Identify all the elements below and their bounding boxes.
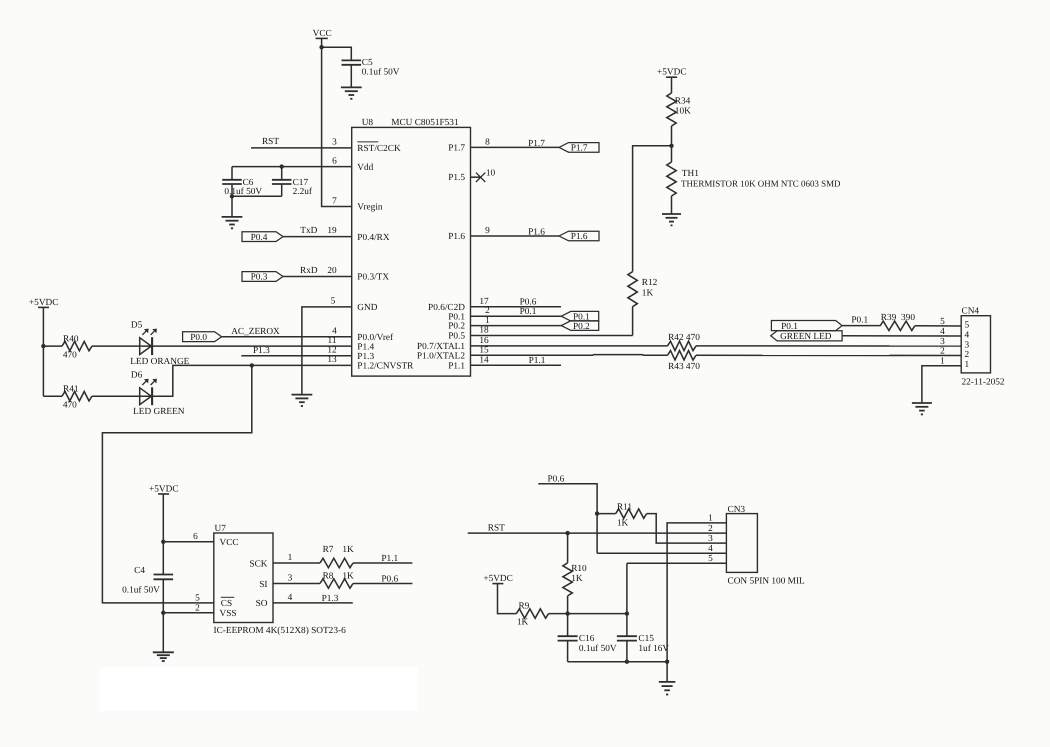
wire C4 to ground xyxy=(162,579,164,652)
resistor R10 xyxy=(567,533,569,563)
wire VCC vertical to Vregin xyxy=(322,38,352,206)
svg-text:1: 1 xyxy=(485,316,490,326)
svg-text:P1.6: P1.6 xyxy=(448,232,465,242)
svg-text:+5VDC: +5VDC xyxy=(657,68,687,78)
LED D6 xyxy=(140,388,152,405)
wire R43 to CN4 pin 2 xyxy=(696,354,961,356)
svg-text:SO: SO xyxy=(256,599,268,609)
wire CN3 pin 4 xyxy=(597,552,726,554)
wire P1.3 stub / net label P1.3 xyxy=(241,355,351,357)
svg-text:15: 15 xyxy=(479,345,489,355)
svg-text:10K: 10K xyxy=(675,107,691,117)
svg-text:11: 11 xyxy=(328,336,337,346)
resistor R9 xyxy=(516,609,548,618)
svg-text:2: 2 xyxy=(708,524,713,534)
ground below C4 xyxy=(153,651,174,653)
svg-text:R34: R34 xyxy=(675,97,691,107)
svg-text:TxD: TxD xyxy=(300,226,317,236)
wire VCC to C5 xyxy=(322,47,352,60)
wire CN4 pin 1 to ground xyxy=(922,366,961,403)
wire R7 to P1.1 stub / net label P1.1 xyxy=(353,562,412,564)
net flag P0.0 xyxy=(183,332,222,342)
svg-text:RST: RST xyxy=(488,524,505,534)
wire pin 17 stub / net label P0.6 xyxy=(471,306,562,308)
svg-text:9: 9 xyxy=(485,226,490,236)
capacitor C5 xyxy=(342,59,362,61)
wire pin 18 (P0.5) to R12 xyxy=(471,335,633,337)
node pin13/EEPROM junction xyxy=(250,363,254,367)
resistor R39 xyxy=(880,321,915,330)
wire SO stub / net label P1.3 xyxy=(273,602,353,604)
svg-text:P1.7: P1.7 xyxy=(448,144,465,154)
svg-text:5: 5 xyxy=(331,297,336,307)
wire CN3 pin 1 to ground xyxy=(667,523,726,682)
svg-text:R42 470: R42 470 xyxy=(668,333,700,343)
node R34/TH1/R12 junction xyxy=(669,144,673,148)
svg-text:P1.2/CNVSTR: P1.2/CNVSTR xyxy=(357,362,414,372)
svg-text:VCC: VCC xyxy=(220,538,239,548)
wire to R41 xyxy=(43,395,62,397)
wire R39 to CN4 pin 5 xyxy=(915,325,961,327)
wire R41 to D6 xyxy=(92,395,152,397)
wire TxD net / net label TxD xyxy=(283,236,352,238)
svg-text:P0.2: P0.2 xyxy=(573,322,590,332)
wire GND pin 5 xyxy=(302,307,352,395)
svg-text:5: 5 xyxy=(195,594,200,604)
node VCC pin 6 junction xyxy=(161,540,165,544)
wire C6/C17 bottoms xyxy=(232,195,282,197)
svg-text:18: 18 xyxy=(479,326,489,336)
wire R8 to P0.6 stub / net label P0.6 xyxy=(353,583,412,585)
svg-text:R41: R41 xyxy=(63,385,79,395)
net flag GREEN LED xyxy=(771,331,842,341)
net flag P0.2 xyxy=(561,321,598,331)
svg-text:P1.6: P1.6 xyxy=(528,228,545,238)
svg-text:U8: U8 xyxy=(362,118,374,128)
node C15 bottom junction xyxy=(625,660,629,664)
resistor R11 xyxy=(616,509,647,518)
svg-text:390: 390 xyxy=(901,313,915,323)
svg-text:P1.5: P1.5 xyxy=(448,173,465,183)
wire to R40 xyxy=(43,345,62,347)
svg-text:P1.3: P1.3 xyxy=(253,346,270,356)
svg-text:D6: D6 xyxy=(131,370,143,380)
wire VSS line xyxy=(163,612,214,614)
wire +5VDC to R34 xyxy=(671,77,673,93)
svg-text:3: 3 xyxy=(708,534,713,544)
wire RST net (CN3 pin 2) / net label RST xyxy=(468,532,727,534)
svg-text:2.2uf: 2.2uf xyxy=(293,187,313,197)
svg-text:CN4: CN4 xyxy=(962,306,980,316)
connector CN4 body xyxy=(961,316,990,373)
EEPROM U7 body xyxy=(214,533,273,623)
svg-text:D5: D5 xyxy=(131,320,143,330)
svg-text:P1.1: P1.1 xyxy=(381,554,398,564)
svg-text:2: 2 xyxy=(485,306,490,316)
wire to U7 VCC pin xyxy=(163,541,214,543)
wire R10 to node xyxy=(567,596,569,614)
svg-text:1K: 1K xyxy=(571,574,583,584)
svg-text:R40: R40 xyxy=(63,335,79,345)
wire R11 to CN3 pin 3 xyxy=(647,514,727,544)
svg-text:470: 470 xyxy=(63,351,77,361)
svg-text:3: 3 xyxy=(940,337,945,347)
svg-text:P0.4: P0.4 xyxy=(251,233,268,243)
svg-text:MCU C8051F531: MCU C8051F531 xyxy=(391,118,459,128)
resistor R12 xyxy=(628,272,637,307)
svg-text:GND: GND xyxy=(357,303,377,313)
svg-text:4: 4 xyxy=(288,593,293,603)
node R10/C16 junction xyxy=(565,611,569,615)
net flag P0.1 (CN4 side) xyxy=(771,321,842,331)
svg-text:C5: C5 xyxy=(362,58,373,68)
svg-text:3: 3 xyxy=(964,340,969,350)
svg-text:2: 2 xyxy=(195,603,200,613)
wire GREEN LED flag to CN4 pin 4 xyxy=(842,335,961,337)
svg-text:12: 12 xyxy=(327,345,337,355)
svg-text:470: 470 xyxy=(63,401,77,411)
svg-text:3: 3 xyxy=(288,574,293,584)
capacitor C15 xyxy=(626,614,628,637)
wire +5VDC vertical xyxy=(42,307,44,396)
svg-text:22-11-2052: 22-11-2052 xyxy=(962,378,1005,388)
svg-text:P0.4/RX: P0.4/RX xyxy=(357,233,390,243)
svg-text:P1.3: P1.3 xyxy=(357,352,374,362)
svg-text:0.1uf 50V: 0.1uf 50V xyxy=(122,585,160,595)
svg-text:2: 2 xyxy=(964,350,969,360)
svg-text:4: 4 xyxy=(964,330,969,340)
wire pin13 node to U7 CS xyxy=(102,365,251,603)
wire D5 to pin 11 (P1.4) xyxy=(152,345,352,347)
svg-text:IC-EEPROM 4K(512X8) SOT23-6: IC-EEPROM 4K(512X8) SOT23-6 xyxy=(214,626,347,636)
wire CN3 pin 5 xyxy=(627,562,727,564)
node C15/CN3 pin5 junction xyxy=(625,611,629,615)
svg-text:P1.0/XTAL2: P1.0/XTAL2 xyxy=(417,351,465,361)
svg-text:U7: U7 xyxy=(215,524,227,534)
resistor R42 xyxy=(668,341,697,350)
ground below CN4 pin 1 xyxy=(912,402,932,404)
connector CN3 body xyxy=(726,514,757,573)
svg-text:1K: 1K xyxy=(342,571,354,581)
wire P0.6 stub / net label P0.6 (CN3) xyxy=(538,484,597,554)
svg-text:7: 7 xyxy=(332,196,337,206)
svg-text:1K: 1K xyxy=(342,545,354,555)
pin name CS with overline xyxy=(221,596,235,598)
resistor R40 xyxy=(62,341,92,350)
resistor R43 xyxy=(668,351,697,360)
wire pin 8 to flag P1.7 / net label P1.7 xyxy=(471,146,560,148)
svg-text:AC_ZEROX: AC_ZEROX xyxy=(231,327,280,337)
wire pin 9 to flag P1.6 / net label P1.6 xyxy=(471,235,560,237)
svg-text:1K: 1K xyxy=(517,618,529,628)
svg-text:Vdd: Vdd xyxy=(357,163,373,173)
svg-text:RST/C2CK: RST/C2CK xyxy=(357,144,401,154)
LED D5 xyxy=(140,338,152,355)
wire capacitor bottoms to ground line xyxy=(568,661,668,663)
wire pin 14 stub / net label P1.1 xyxy=(471,364,562,366)
capacitor C4 xyxy=(154,574,174,576)
net flag P0.1 (MCU side) xyxy=(561,311,598,321)
wire pin 10 stub xyxy=(471,176,482,178)
svg-text:CON 5PIN 100 MIL: CON 5PIN 100 MIL xyxy=(728,576,806,586)
wire pin 15 to R43 xyxy=(471,354,668,357)
wire Vdd net xyxy=(232,166,352,168)
ground below CN3 xyxy=(659,681,676,683)
svg-text:R12: R12 xyxy=(642,278,658,288)
node VCC/C5 junction xyxy=(319,45,323,49)
ground below pin 5 xyxy=(292,394,313,396)
svg-text:THERMISTOR 10K OHM NTC 0603 SM: THERMISTOR 10K OHM NTC 0603 SMD xyxy=(681,178,841,188)
resistor R8 xyxy=(320,579,353,588)
svg-text:C15: C15 xyxy=(638,634,654,644)
svg-text:6: 6 xyxy=(332,156,337,166)
wire AC_ZEROX / net label AC_ZEROX xyxy=(222,336,352,338)
resistor R7 xyxy=(320,558,353,567)
svg-text:GREEN LED: GREEN LED xyxy=(780,332,832,342)
node P0.6/R11 junction xyxy=(595,511,599,515)
net flag P1.7 xyxy=(559,143,599,153)
ground below C6 xyxy=(222,216,243,218)
svg-text:3: 3 xyxy=(332,138,337,148)
svg-text:CS: CS xyxy=(221,599,232,609)
svg-text:P0.2: P0.2 xyxy=(448,321,465,331)
svg-text:5: 5 xyxy=(964,320,969,330)
no-connect X on P1.5 xyxy=(476,173,485,182)
MCU U8 C8051F531 body xyxy=(352,127,471,376)
svg-text:+5VDC: +5VDC xyxy=(483,574,513,584)
svg-text:1uf 16V: 1uf 16V xyxy=(638,644,669,654)
capacitor C17 xyxy=(281,167,283,180)
wire TH1 to ground xyxy=(671,196,673,214)
svg-text:4: 4 xyxy=(708,544,713,554)
svg-text:+5VDC: +5VDC xyxy=(29,298,59,308)
svg-text:R7: R7 xyxy=(323,545,334,555)
net flag P1.6 xyxy=(559,231,599,241)
wire to ground below C6 xyxy=(231,196,233,217)
svg-text:Vregin: Vregin xyxy=(357,203,383,213)
svg-text:0.1uf 50V: 0.1uf 50V xyxy=(362,68,400,78)
capacitor C6 xyxy=(231,167,233,180)
ground below TH1 xyxy=(662,213,681,215)
svg-text:P0.6: P0.6 xyxy=(381,574,398,584)
svg-text:P0.3: P0.3 xyxy=(251,273,268,283)
svg-text:P0.5: P0.5 xyxy=(448,332,465,342)
wire pin 2 to flag P0.1 / net label P0.1 xyxy=(471,315,562,317)
svg-text:R39: R39 xyxy=(881,313,897,323)
net flag P0.3 xyxy=(242,272,283,282)
svg-text:19: 19 xyxy=(327,226,337,236)
wire R12 to pin 18 line xyxy=(632,307,634,336)
wire junction to R11 xyxy=(597,513,616,515)
svg-text:R8: R8 xyxy=(323,571,334,581)
wire R9 to C15 node xyxy=(549,613,627,615)
wire flag to R39 / net label P0.1 xyxy=(842,325,880,327)
svg-text:10: 10 xyxy=(486,168,496,178)
wire SI to R8 xyxy=(273,583,320,585)
thermistor TH1 xyxy=(667,162,676,196)
wire junction to R12 xyxy=(633,146,672,272)
svg-text:SCK: SCK xyxy=(249,559,267,569)
svg-text:0.1uf 50V: 0.1uf 50V xyxy=(579,644,617,654)
wire CN3 pin 5 vertical xyxy=(626,563,628,613)
wire R34 to TH1 xyxy=(671,126,673,162)
wire +5VDC to R9 xyxy=(498,584,517,614)
node RST/R10 junction xyxy=(565,531,569,535)
svg-text:P1.7: P1.7 xyxy=(528,139,545,149)
svg-text:14: 14 xyxy=(479,355,489,365)
svg-text:R9: R9 xyxy=(518,602,529,612)
svg-text:R10: R10 xyxy=(571,564,587,574)
svg-text:P1.4: P1.4 xyxy=(357,342,374,352)
ground below C5 xyxy=(341,86,362,88)
svg-text:13: 13 xyxy=(327,355,337,365)
svg-text:C4: C4 xyxy=(134,566,145,576)
wire +5VDC down through C4 xyxy=(162,494,164,575)
capacitor C16 xyxy=(567,614,569,637)
wire SCK to R7 xyxy=(273,562,320,564)
svg-text:P1.1: P1.1 xyxy=(448,362,465,372)
resistor R41 xyxy=(62,392,92,401)
svg-text:+5VDC: +5VDC xyxy=(149,484,179,494)
svg-text:1: 1 xyxy=(964,360,969,370)
svg-text:1: 1 xyxy=(708,514,713,524)
svg-text:P0.6: P0.6 xyxy=(548,474,565,484)
node ground line junction xyxy=(665,660,669,664)
svg-text:1K: 1K xyxy=(617,519,629,529)
wire D6 up to pin 13 net xyxy=(152,365,352,396)
wire pin 1 to flag P0.2 xyxy=(471,325,562,327)
node Vdd/C17 junction xyxy=(280,164,284,168)
wire RST to pin 3 xyxy=(251,147,352,149)
svg-text:CN3: CN3 xyxy=(728,505,746,515)
wire R40 to D5 xyxy=(92,345,152,347)
svg-text:RxD: RxD xyxy=(300,266,318,276)
resistor R34 xyxy=(667,93,676,126)
svg-text:C16: C16 xyxy=(579,634,595,644)
svg-text:R43 470: R43 470 xyxy=(668,362,700,372)
svg-text:6: 6 xyxy=(193,532,198,542)
svg-text:SI: SI xyxy=(259,580,267,590)
node VSS junction xyxy=(161,611,165,615)
svg-text:LED GREEN: LED GREEN xyxy=(133,407,185,417)
svg-text:5: 5 xyxy=(708,554,713,564)
svg-text:1K: 1K xyxy=(642,289,654,299)
svg-text:8: 8 xyxy=(485,137,490,147)
svg-text:P1.6: P1.6 xyxy=(571,232,588,242)
svg-text:P1.7: P1.7 xyxy=(571,144,588,154)
node +5VDC/R40 junction xyxy=(41,344,45,348)
svg-text:RST: RST xyxy=(262,137,279,147)
svg-text:P1.1: P1.1 xyxy=(529,356,546,366)
svg-text:P0.0: P0.0 xyxy=(190,333,207,343)
svg-text:P1.3: P1.3 xyxy=(322,594,339,604)
pin name RST/C2CK with overline xyxy=(357,141,378,143)
svg-text:VSS: VSS xyxy=(220,609,237,619)
wire pin 16 to R42 xyxy=(471,345,668,347)
svg-text:P0.3/TX: P0.3/TX xyxy=(357,273,389,283)
svg-text:R11: R11 xyxy=(617,502,633,512)
wire C5 to ground xyxy=(350,65,352,88)
wire R42 to CN4 pin 3 xyxy=(696,345,961,347)
svg-text:P0.1: P0.1 xyxy=(851,315,868,325)
node C6 bottom junction xyxy=(230,194,234,198)
net flag P0.4 xyxy=(242,232,283,242)
svg-text:2: 2 xyxy=(940,347,945,357)
svg-text:20: 20 xyxy=(327,266,337,276)
wire RxD net / net label RxD xyxy=(283,276,352,278)
svg-text:P0.1: P0.1 xyxy=(520,307,537,317)
svg-text:1: 1 xyxy=(288,553,293,563)
